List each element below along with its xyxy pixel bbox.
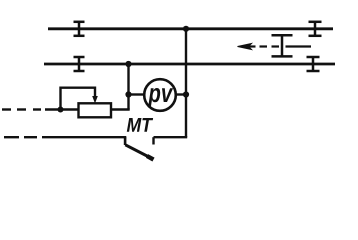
label MT (127, 118, 153, 132)
junction dot at rheostat tap (58, 107, 64, 113)
section insulator on bus 1 right (309, 22, 322, 36)
wire: lower trolley bus line 2 (44, 63, 335, 66)
resistor R (box) (79, 103, 112, 117)
section insulator on bus 2 right (307, 57, 320, 71)
contactor MT fixed contact tick (152, 137, 154, 144)
junction dot on bus1 (183, 26, 189, 32)
wire: voltmeter left lead (129, 93, 145, 95)
wire: contactor feeder dashed lead-in (4, 136, 126, 138)
wire: top trolley bus line 1 (48, 27, 333, 30)
label pv inside voltmeter (148, 88, 173, 107)
section insulator on bus 1 left (74, 22, 85, 36)
junction dot on bus2 (125, 61, 131, 67)
wire: resistor feeder dashed lead-in (2, 108, 130, 110)
direction arrow with dashed travel line (246, 45, 311, 47)
wire: contactor right horizontal to vertical drop (154, 136, 188, 138)
wire: voltmeter right lead (176, 93, 186, 95)
junction dot left of voltmeter (125, 91, 131, 97)
wire: vertical drop from bus1 down to contactor line (185, 29, 187, 137)
junction dot right of voltmeter (183, 91, 189, 97)
contactor MT hinge stub (124, 137, 127, 145)
wire: vertical from bus2 down to resistor feeder (127, 64, 129, 110)
insulator I symbol between buses at right (272, 35, 293, 56)
rheostat slider loop with arrow (61, 88, 96, 110)
voltmeter PV circle (144, 79, 176, 111)
section insulator on bus 2 left (74, 57, 85, 71)
contactor MT blade (open) (125, 145, 149, 157)
